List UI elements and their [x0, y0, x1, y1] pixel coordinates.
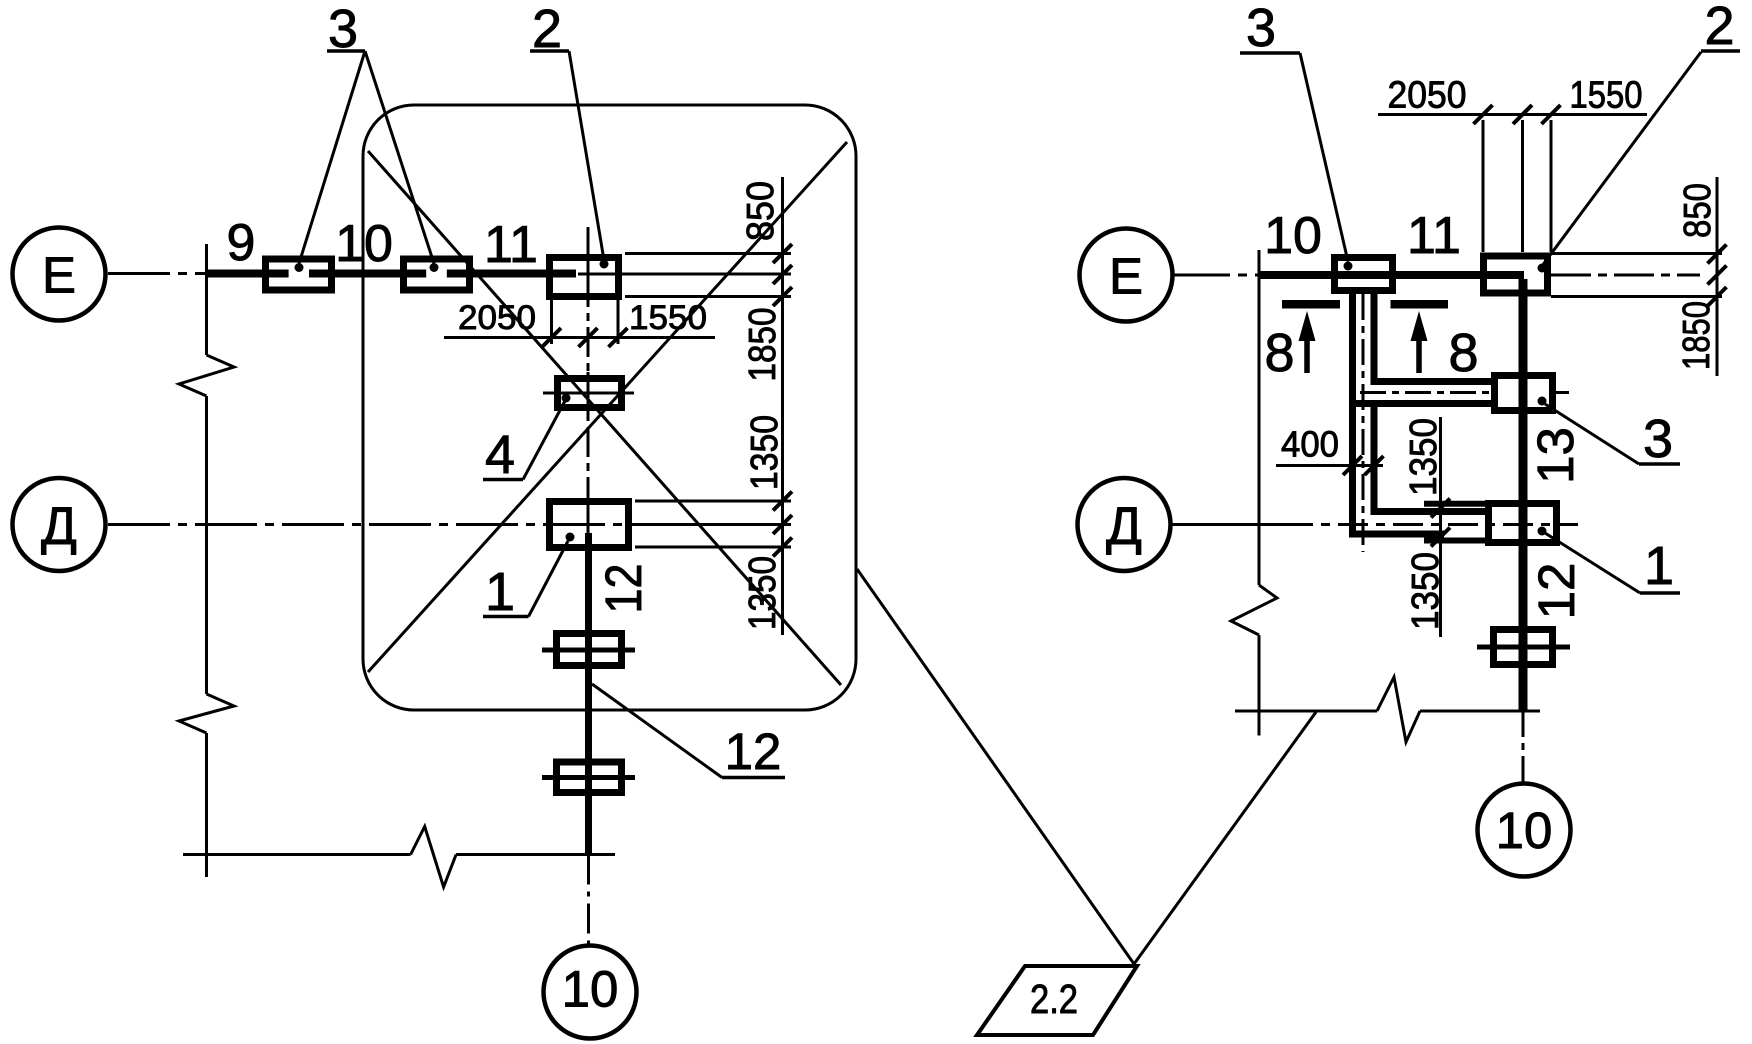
svg-text:1550: 1550	[629, 299, 707, 337]
wall vertical on gridline 11 (right drawing)	[1519, 279, 1528, 711]
underline of label 2 (right top)	[1701, 49, 1740, 53]
mid line of right coupling box	[1477, 645, 1570, 650]
leader dot in box 2	[600, 260, 609, 269]
detail boundary diagonal 1	[368, 151, 841, 685]
axis Д dash-dot	[108, 523, 632, 526]
svg-text:10: 10	[562, 961, 619, 1018]
dimension line 2050/1550	[444, 336, 715, 339]
vertical extension line lower	[1258, 635, 1261, 736]
break zigzag in extension	[1231, 585, 1277, 635]
tick y=296.5	[773, 287, 792, 306]
svg-text:Д: Д	[41, 497, 77, 556]
extension y=253.5 to right dim line	[1551, 252, 1722, 255]
box r4 top edge extension	[1424, 501, 1486, 507]
extension line y=253.5 from box 2	[625, 252, 791, 255]
svg-text:12: 12	[725, 723, 782, 780]
wall edge vertical line x=206.5 middle segment	[205, 396, 208, 694]
svg-text:8: 8	[1264, 323, 1294, 383]
detail boundary diagonal 2	[368, 142, 847, 672]
mid line of box 12a	[542, 648, 635, 653]
lower branch top line	[1371, 508, 1487, 515]
tick y=274.5	[773, 265, 792, 284]
top dimension line (right)	[1378, 113, 1647, 116]
bottom break line (right) right segment	[1420, 710, 1540, 713]
svg-text:10: 10	[1264, 207, 1322, 265]
embedded item box 1 target (right, axis Д)	[1489, 504, 1557, 543]
section arrow 8 left head	[1299, 311, 1316, 341]
bottom break zigzag	[411, 827, 457, 888]
thick wall line on axis Е, segment 3	[447, 270, 576, 278]
tick at 588	[579, 328, 598, 347]
wall edge vertical line x=206.5 lower segment	[205, 733, 208, 877]
duct right wall upper	[1371, 294, 1378, 385]
tick y=501	[773, 492, 792, 511]
embedded item box on gridline 10 (right, axis Е)	[1335, 258, 1393, 291]
svg-text:850: 850	[740, 181, 782, 241]
break (zigzag) in wall edge line, lower	[179, 694, 234, 733]
svg-text:12: 12	[595, 564, 652, 614]
tick 1350 upper	[1431, 499, 1450, 518]
leader dot in second box	[430, 263, 439, 272]
svg-text:Е: Е	[1109, 248, 1143, 305]
tick y=547	[773, 538, 792, 557]
tick at 618	[609, 328, 628, 347]
underline of label 12	[722, 776, 785, 780]
svg-text:11: 11	[1407, 207, 1461, 265]
svg-text:2: 2	[1704, 0, 1734, 56]
thick wall on axis Е (right)	[1259, 271, 1524, 279]
box r4 bottom edge extension	[1424, 538, 1486, 544]
axis Д dash-dot (right)	[1171, 523, 1283, 526]
vertical axis 10 dash-dot (left drawing)	[587, 227, 590, 533]
leader dot in that box	[1344, 262, 1353, 271]
leader dot in box 1	[566, 533, 575, 542]
svg-text:850: 850	[1677, 183, 1719, 238]
dimension extension line x=551.5	[550, 300, 553, 344]
coupling box 12b	[557, 762, 622, 793]
leader dot in box 2 right	[1538, 264, 1547, 273]
underline of label 1	[483, 615, 529, 619]
tick y=524.5	[773, 515, 792, 534]
detail reference line from break line	[1134, 712, 1316, 964]
thin axis Е continuation through box 2 to dim line	[578, 273, 791, 276]
grid circle Д (left)	[13, 478, 106, 571]
section arrow 8 right head	[1411, 311, 1428, 341]
axis Д extension to dim line	[632, 523, 791, 526]
break (zigzag) in wall edge line, upper	[179, 355, 234, 396]
underline of label 1 (right)	[1640, 591, 1680, 595]
tick y=253.5	[773, 244, 792, 263]
axis solid inside box 4	[587, 372, 590, 414]
underline of label 2	[530, 49, 569, 53]
leader from box to label 3 (right middle)	[1545, 404, 1639, 464]
duct axis dash-dot gridline 10	[1362, 294, 1365, 552]
svg-text:11: 11	[484, 216, 538, 274]
dimension 400 line	[1276, 464, 1383, 467]
axis solid inside box 1	[587, 495, 590, 533]
tick x=1483	[1474, 105, 1493, 124]
svg-text:1: 1	[1644, 536, 1674, 596]
top dimension extension x=1483	[1482, 120, 1485, 252]
tick 400 left	[1343, 456, 1362, 475]
embedded item box 2 (leader 2 target) on axis Е	[550, 258, 619, 297]
tick y=296.5 right	[1708, 287, 1727, 306]
upper branch top line	[1371, 378, 1492, 385]
dimension extension line x=618	[617, 300, 620, 344]
svg-text:13: 13	[1527, 427, 1584, 484]
embedded item box (leader 3a target) on axis Е	[266, 259, 332, 290]
thin axis from break to circle 10 (right)	[1522, 711, 1525, 783]
duct right wall lower	[1371, 400, 1378, 515]
leader from label 3 to box on gridline 10	[1300, 53, 1348, 262]
leader from label 3 to second box	[365, 51, 434, 264]
svg-text:10: 10	[1496, 802, 1553, 859]
underline of label 3 (right top)	[1240, 51, 1300, 55]
wall edge vertical line x=206.5 upper segment	[205, 244, 208, 355]
leader from label 2 to box 2	[569, 51, 604, 260]
svg-text:400: 400	[1281, 424, 1339, 465]
embedded item box (leader 3b target) on axis Е	[404, 259, 470, 290]
bottom break line (right) left segment	[1235, 710, 1377, 713]
mid line of box 12b	[542, 775, 635, 780]
underline of label 3 (right middle)	[1639, 462, 1680, 466]
svg-text:8: 8	[1448, 323, 1478, 383]
detail designation parallelogram	[977, 966, 1137, 1035]
leader dot in first box	[295, 263, 304, 272]
thin line through box 4	[543, 392, 634, 395]
svg-text:1550: 1550	[1570, 75, 1643, 117]
axis Е dash-dot after box (right)	[1551, 274, 1700, 277]
svg-text:9: 9	[227, 214, 256, 272]
grid circle Д (right)	[1078, 478, 1171, 571]
svg-text:1: 1	[485, 562, 515, 622]
tick at 551.5	[542, 328, 561, 347]
svg-text:4: 4	[485, 425, 515, 485]
svg-text:1350: 1350	[1405, 552, 1447, 630]
leader from box to label 1 (right)	[1545, 533, 1640, 593]
extension line y=296.5 from box 2	[625, 295, 791, 298]
leader dot in right axis Д box	[1538, 527, 1547, 536]
svg-text:1350: 1350	[1403, 418, 1445, 496]
embedded item box 4	[558, 379, 622, 408]
right dimension line (right drawing)	[1716, 177, 1719, 376]
coupling box 12a	[557, 634, 622, 666]
tick y=275 right	[1708, 266, 1727, 285]
leader from wall to label 12	[592, 684, 722, 778]
vertical dimension line 1350 (right drawing)	[1439, 417, 1442, 637]
upper branch bottom line	[1356, 400, 1491, 407]
extension line y=501 from box 1	[635, 500, 791, 503]
tick 1350 lower	[1431, 528, 1450, 547]
svg-text:Д: Д	[1106, 497, 1142, 556]
svg-text:1850: 1850	[742, 308, 784, 382]
leader dot in right middle box	[1538, 397, 1547, 406]
leader from label 2 to box	[1542, 52, 1701, 266]
leader dot in box 4	[562, 394, 571, 403]
svg-text:1350: 1350	[742, 556, 784, 630]
embedded item box 3 target (right middle)	[1495, 376, 1553, 411]
grid circle Е (left)	[13, 228, 106, 321]
axis Е dash-dot stub from circle	[108, 272, 205, 275]
svg-text:1850: 1850	[1676, 301, 1718, 370]
section mark bar 8 right	[1391, 300, 1449, 309]
detail reference line from boundary	[857, 569, 1134, 964]
thick wall line on axis Е, segment 1	[205, 270, 289, 278]
section mark bar 8 left	[1282, 300, 1340, 309]
thin axis to bottom circle	[587, 855, 590, 946]
embedded item box 1 on axis Д	[550, 502, 629, 548]
top dimension extension x=1551	[1550, 120, 1553, 252]
embedded item box 2 (right, axis Е)	[1484, 256, 1548, 293]
leader from label 1	[529, 541, 569, 617]
lower branch bottom line	[1349, 531, 1444, 538]
duct left wall	[1349, 294, 1356, 538]
extension y=296.5 to right dim line	[1551, 295, 1722, 298]
bottom break zigzag (right)	[1377, 677, 1420, 742]
section arrow 8 left shaft	[1304, 338, 1310, 373]
detail boundary rounded rectangle	[363, 105, 856, 710]
tick x=1522.5	[1513, 105, 1532, 124]
svg-text:Е: Е	[42, 247, 76, 304]
grid circle Е (right)	[1080, 229, 1173, 322]
top dimension extension x=1522.5	[1521, 120, 1524, 252]
svg-text:2050: 2050	[458, 299, 536, 337]
vertical extension line gridline 10 (right) upper	[1258, 250, 1261, 585]
grid circle 10 (bottom left drawing)	[544, 946, 637, 1039]
svg-text:12: 12	[1528, 563, 1585, 620]
leader from label 4	[523, 399, 566, 480]
tick y=254 right	[1708, 245, 1727, 264]
tick x=1551	[1542, 105, 1561, 124]
thick wall line on axis Е, segment 2	[309, 270, 426, 278]
svg-text:3: 3	[1643, 409, 1673, 469]
axis Е dash-dot stub (right)	[1173, 274, 1259, 277]
bottom break line segment right	[456, 853, 615, 856]
right dimension line of left drawing	[781, 177, 784, 635]
leader from label 3 to first box	[299, 51, 365, 264]
extension line y=547 from box 1	[635, 546, 791, 549]
svg-text:3: 3	[1246, 0, 1276, 58]
section arrow 8 right shaft	[1416, 338, 1422, 373]
svg-text:2050: 2050	[1388, 75, 1467, 117]
grid circle 10 (right)	[1478, 784, 1571, 877]
bottom break line segment left	[183, 853, 411, 856]
axis stub right of box 3 target	[1556, 391, 1569, 394]
upper branch axis dash-dot	[1360, 391, 1491, 394]
coupling box (right drawing)	[1494, 630, 1553, 665]
thick wall vertical below axis Д	[585, 533, 592, 855]
svg-text:2.2: 2.2	[1030, 976, 1078, 1022]
underline of label 4	[483, 478, 523, 482]
axis solid inside box 2	[587, 250, 590, 302]
underline of label 3	[327, 49, 365, 53]
svg-text:1350: 1350	[744, 415, 786, 490]
tick 400 right	[1365, 456, 1384, 475]
